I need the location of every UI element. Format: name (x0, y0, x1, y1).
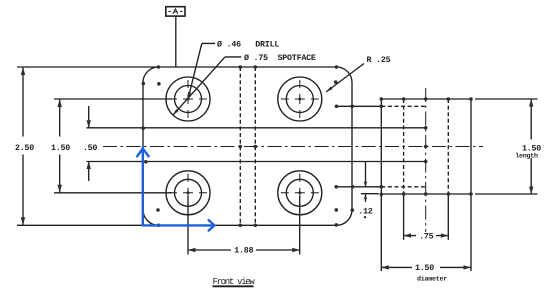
svg-text:2.50: 2.50 (15, 144, 34, 153)
spotface hole bottom-left outer (166, 171, 210, 215)
dimension .75 line (404, 235, 449, 237)
side view hidden hole line right (447, 99, 449, 194)
blue arrowhead right (209, 220, 215, 231)
dimension 1.88 line (188, 249, 300, 251)
dimension .50 arrow stems (88, 106, 90, 181)
plate right edge (351, 83, 353, 210)
hidden slot line vertical right (254, 67, 256, 225)
arrowhead 1.50 top (58, 99, 62, 107)
leader spotface wire (173, 57, 242, 115)
arrowhead .75 left (404, 233, 411, 237)
arrowhead leader radius (326, 87, 333, 93)
arrowhead 2.50 bottom (21, 217, 25, 225)
spotface hole top-left outer (166, 77, 210, 121)
spotface depth line bottom solid (336, 186, 381, 188)
corner fillet top-left (143, 67, 159, 83)
svg-text:length: length (515, 153, 538, 160)
arrowhead leader spotface (173, 109, 179, 115)
side view top edge (381, 98, 537, 100)
groove upper edge wire (87, 127, 426, 129)
corner fillet bottom-right (337, 210, 353, 226)
arrowhead 1.88 left (188, 248, 196, 252)
svg-text:.50: .50 (83, 144, 98, 153)
plate top edge (17, 66, 337, 68)
dimension 2.50 line (22, 67, 24, 225)
corner fillet bottom-left (143, 210, 159, 226)
drill hole top-left inner (175, 86, 202, 113)
arrowhead .12 lower (364, 194, 367, 199)
svg-text:1.88: 1.88 (234, 247, 253, 256)
side view vertical centerline (425, 88, 427, 232)
dimension 1.50 line (59, 99, 61, 193)
datum leader wire (175, 16, 177, 67)
arrowhead leader drill (188, 92, 191, 99)
side view hidden depth line top (381, 105, 425, 107)
arrowhead 1.50 bottom (58, 185, 62, 193)
plate bottom edge (17, 224, 337, 226)
arrowhead .50 lower (87, 162, 91, 170)
arrowhead diameter left (381, 265, 389, 269)
dimension .12 arrow stems (365, 161, 367, 202)
dimension 1.50 length line (530, 99, 532, 194)
drill hole bottom-left inner (175, 179, 202, 206)
groove lower edge wire (87, 161, 426, 163)
side view right edge extended to diameter dim (470, 99, 472, 271)
drill hole top-right inner (286, 86, 313, 113)
spotface hole bottom-right outer (278, 171, 322, 215)
svg-text:Ø .75 SPOTFACE: Ø .75 SPOTFACE (244, 54, 316, 63)
spotface hole top-right outer (278, 77, 322, 121)
extension line 1.88 right (299, 196, 301, 255)
svg-text:1.50: 1.50 (415, 264, 434, 273)
datum box -A- (166, 7, 185, 16)
arrowhead .50 upper (87, 120, 91, 128)
corner fillet top-right (337, 67, 353, 83)
svg-text:Ø .46 DRILL: Ø .46 DRILL (217, 40, 279, 49)
center mark top-left (169, 80, 207, 118)
extension line below hidden left (403, 194, 405, 240)
arrowhead 2.50 top (21, 67, 25, 75)
side view hidden hole line left (403, 99, 405, 194)
arrowhead diameter right (464, 265, 472, 269)
arrowhead .12 upper (364, 182, 367, 187)
svg-text:diameter: diameter (417, 276, 447, 283)
plate left edge (142, 83, 144, 210)
extension line 1.88 left (187, 196, 189, 255)
blue arrowhead up (137, 149, 148, 157)
center mark bottom-right (281, 174, 319, 212)
drill hole bottom-right inner (286, 179, 313, 206)
side view hidden depth line bottom (381, 186, 425, 188)
leader radius wire (326, 64, 364, 93)
arrowhead 1.88 right (292, 248, 300, 252)
blue axis polyline (137, 147, 214, 231)
arrowhead length top (529, 99, 533, 107)
svg-text:R .25: R .25 (367, 56, 391, 65)
extension line hole top center (54, 98, 172, 100)
hidden slot line vertical left (239, 67, 241, 225)
dimension 1.50 diameter line (381, 266, 471, 268)
svg-text:.75: .75 (419, 232, 434, 241)
arrowhead .75 right (441, 233, 448, 237)
extension line hole bottom center (54, 192, 172, 194)
svg-text:.12: .12 (358, 207, 373, 216)
side view left edge extended to diameter dim (380, 99, 382, 271)
leader drill wire (188, 43, 215, 99)
horizontal centerline (103, 146, 483, 148)
arrowhead length bottom (529, 187, 533, 195)
spotface depth line top solid (337, 105, 382, 107)
extension line below hidden right (447, 194, 449, 240)
svg-text:1.50: 1.50 (51, 144, 70, 153)
center mark bottom-left (169, 174, 207, 212)
side view bottom edge (361, 193, 538, 195)
center mark top-right (281, 80, 319, 118)
datum label text (168, 9, 182, 14)
